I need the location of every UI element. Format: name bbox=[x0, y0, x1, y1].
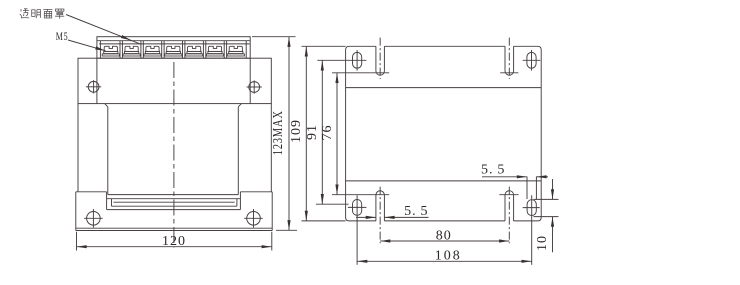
dim 91 extension lines bbox=[317, 59, 347, 61]
svg-text:91: 91 bbox=[305, 124, 320, 140]
top clamp plate bbox=[78, 58, 271, 103]
char 罩 bbox=[55, 9, 64, 19]
terminal strip inner top line bbox=[97, 40, 250, 42]
dim 109 extension lines bbox=[302, 45, 346, 47]
front view centerline bbox=[173, 62, 175, 248]
top flange line bbox=[346, 87, 542, 89]
dim 5.5 top-right extension lines bbox=[526, 177, 528, 200]
svg-text:80: 80 bbox=[436, 228, 452, 243]
screw terminal 2 bbox=[123, 46, 140, 56]
mounting hole right bbox=[247, 212, 261, 226]
slotted hole bottom-right bbox=[527, 200, 536, 216]
svg-text:5. 5: 5. 5 bbox=[404, 204, 428, 219]
dim 5.5 bottom-left line bbox=[356, 216, 376, 218]
core top chamfer right bbox=[238, 104, 241, 107]
svg-text:120: 120 bbox=[162, 234, 186, 249]
terminal strip inner horizontal line bbox=[99, 43, 249, 45]
svg-text:123MAX: 123MAX bbox=[271, 110, 286, 155]
dim 76 line bbox=[336, 73, 338, 195]
dim 10 line bbox=[552, 179, 554, 199]
bottom flange line bbox=[346, 180, 542, 182]
screw terminal 3 bbox=[144, 46, 161, 56]
clamp screw left bbox=[88, 81, 99, 92]
dim 123MAX extension lines bbox=[252, 36, 296, 38]
core bottom bbox=[108, 194, 239, 196]
dim 120 extension lines bbox=[76, 232, 78, 251]
terminal strip inner side walls bbox=[99, 41, 101, 59]
terminal strip outer box bbox=[97, 37, 250, 59]
base bottom bbox=[76, 227, 272, 229]
slotted hole bottom-left bbox=[353, 200, 362, 216]
mounting hole left bbox=[87, 212, 101, 226]
base notch walls bbox=[106, 192, 108, 210]
clamp screw right bbox=[249, 82, 260, 93]
base sides bbox=[75, 192, 77, 231]
bobbin flange sides bbox=[111, 199, 113, 207]
svg-text:109: 109 bbox=[289, 119, 304, 143]
svg-text:5. 5: 5. 5 bbox=[481, 163, 505, 178]
leader line M5 bbox=[68, 40, 106, 51]
dim 123MAX line bbox=[288, 37, 290, 231]
base notch bottom bbox=[107, 209, 241, 211]
screw terminal 6 bbox=[206, 46, 223, 56]
core side right bbox=[237, 107, 239, 195]
svg-text:108: 108 bbox=[435, 248, 462, 263]
dim 80 line bbox=[380, 240, 509, 242]
char 透 bbox=[20, 9, 29, 18]
bottom slot right bbox=[504, 195, 506, 221]
screw terminal 5 bbox=[186, 46, 203, 56]
label transparent cover 透明面罩 drawn as strokes bbox=[20, 9, 65, 19]
char 明 bbox=[32, 10, 41, 18]
body side right bbox=[270, 104, 272, 192]
char 面 bbox=[43, 9, 52, 18]
dim 76 extension lines bbox=[332, 72, 371, 74]
bottom slot left bbox=[375, 195, 377, 221]
terminal cell dividers bbox=[120, 41, 227, 59]
screw terminal 1 bbox=[102, 46, 119, 56]
dim 120 line bbox=[77, 246, 272, 248]
base foot line bbox=[76, 230, 272, 232]
bobbin flange inner line bbox=[113, 201, 234, 203]
leader line transparent cover bbox=[66, 15, 141, 45]
core top chamfer left bbox=[105, 104, 108, 107]
screw terminal 7 bbox=[227, 46, 244, 56]
core side left bbox=[107, 107, 109, 195]
svg-text:10: 10 bbox=[535, 235, 550, 251]
strip side lines through plate bbox=[96, 58, 98, 103]
screw terminal 4 bbox=[165, 46, 182, 56]
side view outline bbox=[346, 46, 542, 221]
svg-text:M5: M5 bbox=[56, 29, 69, 43]
svg-text:76: 76 bbox=[320, 125, 335, 141]
slotted hole top-right bbox=[527, 52, 536, 68]
dim 10 extension lines bbox=[534, 198, 559, 200]
base top right segment bbox=[240, 191, 272, 193]
bobbin flange ledge bbox=[107, 198, 241, 200]
bobbin flange bottom bbox=[112, 205, 237, 207]
dim 91 line bbox=[321, 60, 323, 204]
dim 5.5 top-right line bbox=[482, 176, 527, 178]
top slot left bbox=[375, 46, 377, 71]
body side left bbox=[77, 104, 79, 192]
slotted hole top-left bbox=[353, 52, 362, 68]
dim 109 line bbox=[305, 46, 307, 221]
base top left segment bbox=[76, 191, 107, 193]
dim 108 line bbox=[357, 260, 532, 262]
top slot right bbox=[504, 46, 506, 71]
